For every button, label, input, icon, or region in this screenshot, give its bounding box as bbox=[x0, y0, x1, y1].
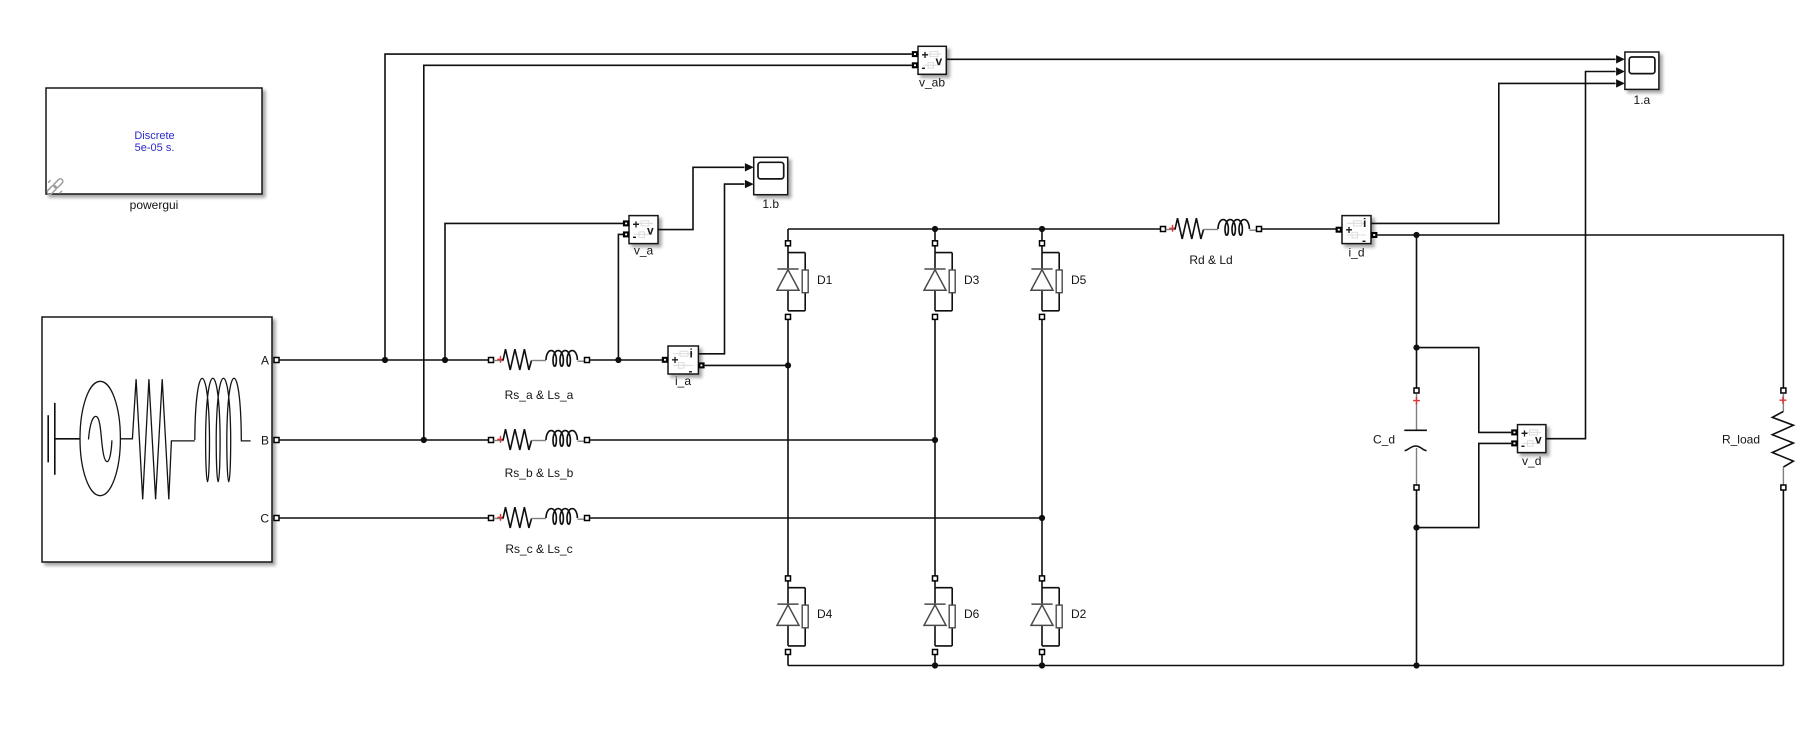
svg-text:powergui: powergui bbox=[130, 198, 179, 212]
C_d column wire upper bbox=[1416, 235, 1418, 388]
svg-text:v: v bbox=[936, 54, 943, 68]
wire Rd & Ld to i_d bbox=[1262, 228, 1339, 230]
junction A / v_a plus bbox=[442, 357, 448, 363]
junction A / v_ab bbox=[382, 357, 388, 363]
wire branch to v_d minus bbox=[1417, 443, 1512, 527]
wire phase B bbox=[279, 439, 935, 441]
arrow into 1.a input 2 bbox=[1616, 67, 1625, 75]
arrow into 1.a input 1 bbox=[1616, 55, 1625, 63]
svg-text:1.b: 1.b bbox=[762, 197, 779, 211]
svg-text:v_ab: v_ab bbox=[919, 76, 945, 90]
wire R_load bottom to bus bbox=[1782, 490, 1784, 665]
svg-text:+: + bbox=[1346, 223, 1353, 237]
source ground symbol bbox=[48, 403, 80, 475]
junction C_d / v_d plus branch bbox=[1413, 345, 1419, 351]
svg-text:-: - bbox=[922, 60, 926, 74]
svg-text:1.a: 1.a bbox=[1634, 93, 1651, 107]
svg-text:Rs_b & Ls_b: Rs_b & Ls_b bbox=[505, 466, 574, 480]
svg-text:A: A bbox=[261, 354, 269, 368]
svg-text:i_a: i_a bbox=[675, 374, 691, 388]
v_a plus input port bbox=[623, 220, 629, 226]
wire i_a minus to bridge bbox=[705, 364, 788, 366]
scope 1.a bbox=[1625, 52, 1659, 89]
junction top bus D5 bbox=[1039, 226, 1045, 232]
arrow into 1.b input 2 bbox=[745, 180, 754, 188]
svg-text:i: i bbox=[1363, 216, 1366, 230]
capacitor C_d bbox=[1404, 388, 1427, 490]
v_ab plus input port bbox=[912, 51, 918, 57]
wire A to v_a minus bbox=[618, 234, 626, 360]
diode D5 bbox=[1031, 241, 1062, 320]
arrow into 1.a input 3 bbox=[1616, 79, 1625, 87]
i_d plus input port bbox=[1336, 227, 1342, 233]
v_d minus input port bbox=[1511, 440, 1517, 446]
column D5/D2 wires bbox=[1041, 229, 1043, 666]
diode D4 bbox=[777, 576, 808, 655]
column D1/D4 wires bbox=[787, 229, 789, 666]
three-phase source block bbox=[42, 317, 272, 562]
svg-text:i: i bbox=[690, 346, 693, 360]
svg-text:i_d: i_d bbox=[1348, 246, 1364, 260]
source inductor coil bbox=[195, 378, 251, 482]
DC bottom bus bbox=[788, 665, 1783, 667]
v_d plus input port bbox=[1511, 429, 1517, 435]
i_a plus input port bbox=[662, 357, 668, 363]
svg-text:D1: D1 bbox=[817, 273, 833, 287]
voltage measurement v_a bbox=[629, 216, 658, 244]
junction C_d / v_d minus branch bbox=[1413, 525, 1419, 531]
svg-text:-: - bbox=[633, 230, 637, 244]
source port C square bbox=[274, 516, 279, 521]
svg-text:D3: D3 bbox=[964, 273, 980, 287]
junction bridge phase A bbox=[785, 362, 791, 368]
current measurement i_d bbox=[1342, 216, 1371, 248]
svg-text:D2: D2 bbox=[1071, 607, 1087, 621]
resistor-inductor branch Rs_c & Ls_c bbox=[489, 507, 590, 528]
i_a minus output port bbox=[698, 362, 704, 368]
source AC voltage circle bbox=[80, 381, 120, 495]
wire phase A bbox=[279, 359, 662, 361]
svg-text:v_a: v_a bbox=[634, 244, 654, 258]
wire phase C bbox=[279, 517, 1042, 519]
diode D2 bbox=[1031, 576, 1062, 655]
svg-text:v_d: v_d bbox=[1522, 454, 1541, 468]
svg-text:+: + bbox=[672, 353, 679, 367]
wire v_a out to scope 1.b bbox=[658, 167, 744, 229]
current measurement i_a bbox=[668, 346, 698, 378]
wire v_ab out to scope 1.a bbox=[946, 58, 1615, 60]
junction B / v_ab bbox=[421, 437, 427, 443]
svg-text:R_load: R_load bbox=[1722, 433, 1760, 447]
wire A to v_a plus bbox=[445, 223, 626, 360]
junction C_d / bottom bus bbox=[1413, 662, 1419, 668]
svg-text:C: C bbox=[260, 512, 269, 526]
powergui block bbox=[46, 88, 262, 194]
arrow into 1.b input 1 bbox=[745, 163, 754, 171]
svg-text:D6: D6 bbox=[964, 607, 980, 621]
junction i_d minus / C_d column bbox=[1413, 232, 1419, 238]
diode D1 bbox=[777, 241, 808, 320]
svg-text:v: v bbox=[647, 223, 654, 237]
source port A square bbox=[274, 358, 279, 363]
svg-text:Rs_a & Ls_a: Rs_a & Ls_a bbox=[505, 388, 574, 402]
i_d minus output port bbox=[1371, 232, 1377, 238]
scope 1.b bbox=[754, 157, 788, 194]
svg-text:5e-05 s.: 5e-05 s. bbox=[135, 142, 175, 154]
powergui broken-link icon bbox=[46, 178, 64, 196]
voltage measurement v_ab bbox=[918, 46, 946, 74]
junction top bus D3 bbox=[932, 226, 938, 232]
v_ab minus input port bbox=[912, 62, 918, 68]
svg-text:D5: D5 bbox=[1071, 273, 1087, 287]
resistor-inductor branch Rs_b & Ls_b bbox=[489, 429, 590, 450]
source resistor zigzag bbox=[120, 379, 194, 499]
wire i_d minus to R_load bbox=[1377, 235, 1783, 388]
wire B to v_ab minus bbox=[424, 65, 912, 440]
junction bottom bus D6 bbox=[932, 662, 938, 668]
svg-text:Discrete: Discrete bbox=[134, 130, 174, 142]
DC top bus bbox=[788, 228, 1160, 230]
column D3/D6 wires bbox=[934, 229, 936, 666]
voltage measurement v_d bbox=[1518, 425, 1546, 453]
svg-text:Rs_c & Ls_c: Rs_c & Ls_c bbox=[505, 542, 572, 556]
wire branch to v_d plus bbox=[1417, 348, 1512, 433]
wire i_d out to scope 1.a bbox=[1371, 83, 1616, 223]
diode D3 bbox=[924, 241, 955, 320]
resistor-inductor branch Rd & Ld bbox=[1161, 218, 1262, 239]
v_a minus input port bbox=[623, 231, 629, 237]
C_d column wire lower bbox=[1416, 490, 1418, 665]
junction A / v_a minus bbox=[615, 357, 621, 363]
svg-text:-: - bbox=[1521, 439, 1525, 453]
junction bottom bus D2 bbox=[1039, 662, 1045, 668]
wire v_d out to scope 1.a bbox=[1546, 72, 1616, 439]
svg-text:C_d: C_d bbox=[1373, 433, 1395, 447]
svg-text:v: v bbox=[1535, 433, 1542, 447]
wire i_a out to scope 1.b bbox=[698, 184, 744, 354]
wire A to v_ab plus bbox=[385, 54, 912, 360]
diode D6 bbox=[924, 576, 955, 655]
svg-text:D4: D4 bbox=[817, 607, 833, 621]
svg-text:Rd & Ld: Rd & Ld bbox=[1189, 253, 1232, 267]
junction bridge phase C bbox=[1039, 515, 1045, 521]
source port B square bbox=[274, 438, 279, 443]
resistor R_load bbox=[1772, 388, 1793, 490]
source sine wave bbox=[89, 416, 112, 461]
junction bridge phase B bbox=[932, 437, 938, 443]
svg-text:B: B bbox=[261, 434, 269, 448]
resistor-inductor branch Rs_a & Ls_a bbox=[489, 349, 590, 370]
